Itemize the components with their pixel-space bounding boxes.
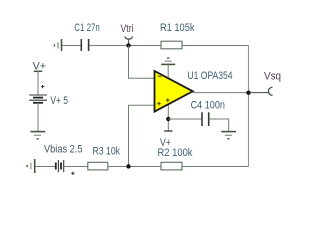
svg-text:U1 OPA354: U1 OPA354 xyxy=(188,70,233,82)
svg-text:Vbias 2.5: Vbias 2.5 xyxy=(44,144,83,156)
svg-text:R3 10k: R3 10k xyxy=(93,145,121,157)
wire op-amp output xyxy=(193,92,249,94)
op-amp minus sign xyxy=(158,75,161,77)
junction dot bottom xyxy=(126,164,130,168)
wire C4 to ground corner xyxy=(209,119,229,132)
junction dot output xyxy=(246,91,250,95)
wire C1 to Vtri junction to R1 xyxy=(89,45,161,47)
V+ terminal below op-amp xyxy=(164,130,172,132)
svg-text:Vsq: Vsq xyxy=(264,71,281,83)
node Vsq terminal arc xyxy=(268,87,272,95)
battery V+5 polarity plus xyxy=(41,85,44,88)
ground right of C4 xyxy=(221,132,236,139)
battery V+ 5 xyxy=(29,95,47,103)
wire noninverting riser xyxy=(129,105,155,166)
svg-text:Vtri: Vtri xyxy=(121,23,134,35)
battery Vbias polarity plus xyxy=(71,172,74,175)
ground below battery xyxy=(30,132,45,139)
svg-text:V+: V+ xyxy=(160,137,171,149)
op-amp plus sign (input) xyxy=(157,102,160,105)
ground above op-amp (flipped) xyxy=(161,58,175,65)
wire V+ bar to battery xyxy=(37,71,39,95)
junction dot V+ / C4 xyxy=(166,117,170,121)
capacitor C1 xyxy=(81,39,88,51)
svg-text:C4 100n: C4 100n xyxy=(191,100,225,112)
capacitor C4 xyxy=(202,112,209,126)
node Vtri terminal arc xyxy=(125,36,133,39)
wire opamp V- pin to ground xyxy=(167,64,169,80)
svg-text:R1 105k: R1 105k xyxy=(160,22,195,34)
svg-text:C1 27n: C1 27n xyxy=(74,22,100,34)
op-amp U1 triangle xyxy=(155,71,193,112)
wire C1 left lead xyxy=(62,45,81,47)
wire inverting riser xyxy=(129,46,155,79)
wire feedback vertical right xyxy=(248,45,250,167)
resistor R3 xyxy=(88,162,108,170)
wire ground to Vbias battery xyxy=(35,166,56,168)
wire Vbias to R3 xyxy=(64,166,88,168)
V+ terminal top-left xyxy=(34,70,43,72)
ground (rotated left, at Vbias left) xyxy=(27,159,35,173)
svg-text:V+: V+ xyxy=(33,60,46,72)
op-amp plus sign (power) xyxy=(166,98,169,101)
resistor R1 xyxy=(161,41,182,49)
wire output to Vsq terminal xyxy=(249,92,269,94)
svg-text:V+ 5: V+ 5 xyxy=(50,95,68,107)
resistor R2 xyxy=(161,162,182,170)
wire opamp V+ pin down xyxy=(167,100,169,131)
wire R3 to R2 xyxy=(108,166,161,168)
wire R1 to top-right corner xyxy=(182,45,249,47)
junction dot Vtri xyxy=(126,43,130,47)
wire R2 to bottom-right corner xyxy=(182,166,249,168)
battery Vbias 2.5 xyxy=(56,160,64,172)
ground (rotated left, at C1 left) xyxy=(55,39,62,51)
wire battery to ground xyxy=(37,103,39,132)
wire junction to C4 xyxy=(168,118,201,120)
